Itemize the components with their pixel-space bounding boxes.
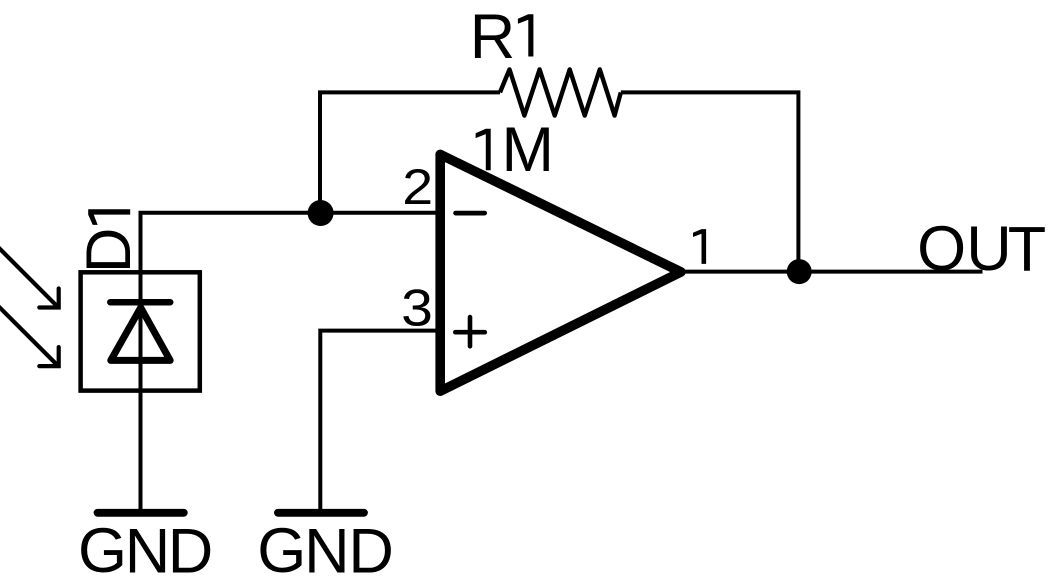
label GND left xyxy=(78,516,213,586)
svg-text:O: O xyxy=(917,214,966,284)
svg-text:N: N xyxy=(304,516,350,586)
op-amp plus input symbol xyxy=(455,317,485,346)
ground symbol right (bar) xyxy=(278,509,364,517)
label GND right xyxy=(257,516,394,586)
wire: resistor to output node xyxy=(621,92,799,271)
ground symbol left (bar) xyxy=(98,509,184,517)
light arrow 1 xyxy=(0,247,59,308)
svg-text:3: 3 xyxy=(401,279,433,337)
svg-text:G: G xyxy=(257,516,306,586)
svg-text:N: N xyxy=(125,516,171,586)
wire: photodiode D1 to inverting input pin 2 xyxy=(141,213,437,513)
svg-text:U: U xyxy=(966,214,1012,284)
svg-text:D: D xyxy=(74,228,144,274)
node: inverting input junction xyxy=(308,200,334,226)
op-amp U1 triangle xyxy=(440,154,681,391)
label D1 (rotated) xyxy=(74,209,144,273)
label R1 xyxy=(470,2,534,72)
wire: inverting node to feedback, up and right to resistor xyxy=(320,92,500,212)
svg-text:R: R xyxy=(470,2,516,72)
op-amp minus input symbol xyxy=(456,211,485,216)
light arrow 2 xyxy=(0,306,59,366)
svg-text:2: 2 xyxy=(402,159,433,215)
resistor R1 xyxy=(500,69,621,115)
svg-text:D: D xyxy=(348,516,394,586)
wire: pin 3 to ground xyxy=(320,331,436,513)
svg-text:T: T xyxy=(1008,215,1046,285)
label 1M xyxy=(476,115,554,185)
pin number 1 xyxy=(693,229,706,264)
photodiode D1 cathode bar xyxy=(110,299,170,306)
svg-text:G: G xyxy=(78,516,127,586)
svg-text:M: M xyxy=(502,115,554,185)
label OUT xyxy=(917,214,1046,285)
svg-text:D: D xyxy=(168,516,214,586)
wire: op-amp output to OUT xyxy=(682,270,983,274)
photodiode D1 anode triangle xyxy=(111,308,170,361)
photodiode D1 package box xyxy=(81,272,200,390)
node: output junction xyxy=(787,259,812,284)
